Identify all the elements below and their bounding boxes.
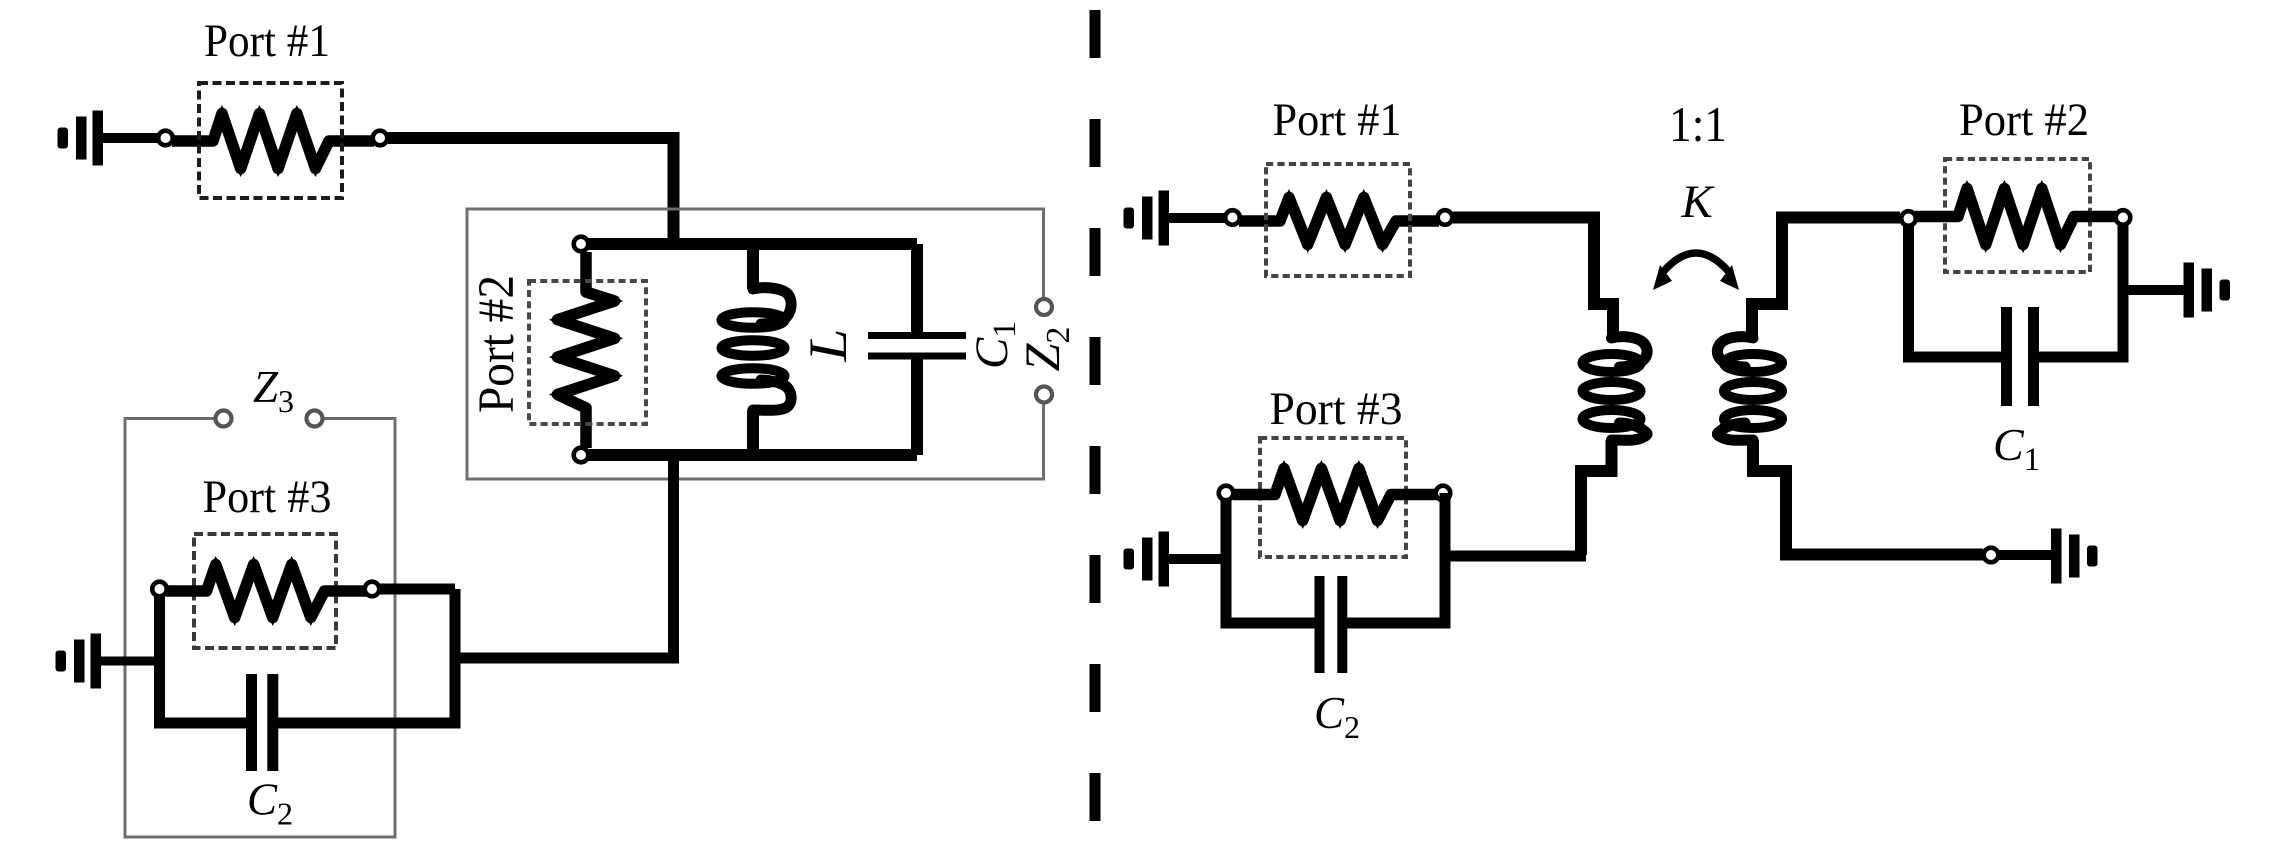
svg-text:Port #2: Port #2 [1959, 94, 2089, 146]
dashed port box (Port #2 left) [529, 281, 646, 424]
wire (to ground) [2123, 285, 2184, 295]
wire [103, 133, 158, 143]
node (secondary bottom terminal) [1984, 548, 1999, 563]
wire (right P3 parallel loop left) [1221, 500, 1232, 623]
wire (parallel loop left side) [154, 596, 165, 723]
svg-text:Port #3: Port #3 [1270, 383, 1403, 435]
wire [747, 410, 759, 455]
ground (right circuit, Port #2) [2184, 263, 2231, 318]
node (tank top-left) [574, 237, 589, 252]
svg-text:Port #1: Port #1 [204, 15, 330, 67]
inductor L [722, 288, 792, 411]
wire [1169, 213, 1225, 223]
wire [101, 657, 160, 666]
wire (secondary bottom lead) [1753, 440, 1983, 555]
resistor R (Port #3, right circuit) [1233, 460, 1437, 529]
node (Port #1 left terminal) [158, 131, 173, 146]
wire (right P2 loop left) [1903, 226, 1914, 357]
wire (bottom rail of tank) [581, 449, 917, 461]
impedance box Z3 (gray outline) [125, 419, 395, 838]
svg-text:1:1: 1:1 [1669, 96, 1727, 152]
node (right Port #3 left terminal) [1219, 486, 1234, 501]
coupling arrow [1653, 253, 1739, 290]
dashed port box (Port #1 right) [1266, 164, 1410, 276]
resistor R (Port #2, right circuit) [1915, 180, 2118, 253]
wire (right P2 loop bottom) [1903, 352, 2129, 363]
resistor R (Port #3, left circuit) [166, 556, 366, 626]
capacitor C1 (right circuit) [2007, 307, 2034, 406]
impedance box Z2 (gray outline) [467, 209, 1044, 479]
wire (secondary top lead) [1752, 218, 1900, 339]
wire [1169, 554, 1227, 564]
capacitor C1 (left circuit) [868, 336, 966, 357]
dashed port box (Port #1 left) [199, 83, 342, 198]
svg-text:K: K [1680, 176, 1715, 228]
transformer primary winding [1583, 337, 1648, 441]
wire (right P3 parallel loop right + to transformer) [1445, 493, 1586, 623]
node (right Port #1 left terminal) [1225, 210, 1240, 225]
label Z2 [1014, 327, 1077, 372]
wire [911, 244, 923, 332]
node (right Port #3 right terminal) [1436, 486, 1451, 501]
capacitor C2 (right circuit) [1320, 576, 1343, 673]
dashed port box (Port #3 right) [1260, 438, 1406, 557]
svg-text:Port #1: Port #1 [1273, 94, 1402, 146]
svg-text:L: L [798, 329, 858, 363]
terminal Z2 upper [1036, 299, 1052, 315]
node (tank bottom-left) [574, 448, 589, 463]
terminal Z3 right [307, 411, 323, 427]
wire (to transformer primary) [1453, 218, 1613, 339]
wire [747, 244, 759, 289]
label Port #2 (left circuit, rotated) [469, 275, 525, 413]
node (right Port #1 right terminal) [1438, 210, 1453, 225]
capacitor C2 (left circuit) [252, 674, 273, 771]
label L [798, 329, 858, 363]
resistor R (Port #2, left circuit, vertical) [549, 252, 623, 448]
wire [911, 359, 923, 455]
ground (left circuit, Port #3) [56, 634, 102, 689]
dashed port box (Port #3 left) [194, 534, 336, 648]
svg-text:Port #2: Port #2 [469, 275, 525, 413]
ground (left circuit, Port #1) [58, 111, 104, 166]
node (Port #3 right terminal) [365, 582, 380, 597]
transformer secondary winding [1717, 337, 1782, 441]
wire (bottom of parallel loop) [154, 718, 461, 729]
wire (right P3 parallel loop bottom) [1221, 618, 1451, 629]
dashed divider line [1090, 10, 1101, 849]
wire [388, 138, 674, 250]
terminal Z2 lower [1036, 387, 1052, 403]
ground (right circuit, secondary bottom) [2051, 529, 2098, 584]
node (right Port #2 right terminal) [2116, 210, 2131, 225]
svg-text:Port #3: Port #3 [203, 471, 332, 523]
resistor R (Port #1, left circuit) [172, 105, 374, 177]
ground (right circuit, Port #3) [1124, 532, 1170, 587]
terminal Z3 left [216, 411, 232, 427]
dashed port box (Port #2 right) [1945, 159, 2090, 272]
wire (top rail of tank) [581, 238, 917, 250]
wire (right P2 loop right) [2118, 225, 2129, 357]
node (right Port #2 left terminal) [1901, 211, 1916, 226]
resistor R (Port #1, right circuit) [1239, 189, 1439, 253]
wire (tank to Port #3 block) [455, 455, 674, 658]
ground (right circuit, Port #1) [1124, 191, 1170, 246]
node (Port #1 right terminal) [373, 131, 388, 146]
wire [1999, 550, 2051, 560]
label C1 (left circuit, rotated) [966, 321, 1023, 369]
node (Port #3 left terminal) [152, 582, 167, 597]
wire (primary bottom lead) [1581, 440, 1612, 555]
wire (parallel loop right side) [380, 589, 455, 723]
